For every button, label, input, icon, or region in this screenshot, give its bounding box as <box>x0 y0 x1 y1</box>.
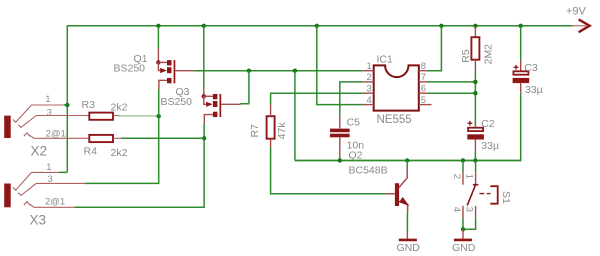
wire Q2 emitter to GND <box>406 213 408 231</box>
node dot S1 to GND <box>461 227 465 231</box>
wire IC pin6 to R5/C2 column <box>428 92 475 94</box>
capacitor C3 33u <box>513 60 543 96</box>
svg-text:33µ: 33µ <box>481 140 499 152</box>
wire rail to IC pin4 <box>317 26 363 105</box>
wire junction down to X3 pin3 <box>85 116 159 183</box>
wire R3 to junction <box>119 115 159 117</box>
wire Q1 gate to IC pin1 <box>194 70 363 72</box>
svg-text:R4: R4 <box>84 145 98 157</box>
IC1 pin 6 <box>419 92 428 94</box>
svg-text:GND: GND <box>452 242 476 254</box>
node dot rail-Q1 <box>156 24 160 28</box>
node dot gate net / C5-Q2 branch <box>293 69 297 73</box>
node dot Q3 drain / R4 <box>202 136 206 140</box>
+9V supply symbol <box>566 6 590 33</box>
svg-text:+9V: +9V <box>566 6 587 18</box>
svg-text:BC548B: BC548B <box>349 165 388 177</box>
ground GND under S1 <box>452 229 476 254</box>
svg-text:1: 1 <box>463 174 474 179</box>
svg-text:GND: GND <box>397 242 421 254</box>
node dot C2/S1 pin1 <box>473 158 477 162</box>
IC1 pin 3 <box>363 92 374 94</box>
svg-text:1: 1 <box>46 162 51 173</box>
svg-text:33µ: 33µ <box>525 84 543 96</box>
wire rail to IC pin8 <box>428 26 441 71</box>
wire C3 down to discharge net <box>295 93 521 161</box>
wire +9V rail and left drop <box>67 26 573 173</box>
capacitor C2 33u <box>467 118 499 152</box>
svg-text:8: 8 <box>421 61 426 72</box>
node dot C5 <box>338 158 342 162</box>
wire down to discharge net <box>294 71 296 161</box>
wire Q1 drain to junction <box>158 89 160 116</box>
svg-text:6: 6 <box>421 83 426 94</box>
svg-text:7: 7 <box>421 72 426 83</box>
svg-text:C3: C3 <box>524 62 538 74</box>
wire rail to Q1 source <box>157 26 159 49</box>
svg-text:C5: C5 <box>347 117 361 129</box>
svg-text:R3: R3 <box>82 99 96 111</box>
wire rail to Q3 source <box>203 26 205 89</box>
resistor R3 2k2 <box>82 99 128 120</box>
svg-text:2: 2 <box>451 174 462 179</box>
IC1 pin 1 <box>363 70 374 72</box>
svg-text:IC1: IC1 <box>377 54 394 66</box>
transistor Q1 BS250 <box>114 48 195 89</box>
node dot rail-C3 <box>519 24 523 28</box>
IC1 pin 7 <box>419 81 428 83</box>
wire IC pin7 to R5/C2 column <box>428 81 475 83</box>
node dot rail-pin4 <box>315 24 319 28</box>
svg-text:4: 4 <box>367 95 372 106</box>
switch S1 <box>451 161 512 230</box>
svg-text:4: 4 <box>451 207 462 212</box>
wire C2 down to discharge net <box>474 152 476 161</box>
wire IC pin3 to R7 <box>271 93 363 104</box>
wire rail to R5 <box>474 26 476 37</box>
IC1 NE555 body <box>363 54 432 126</box>
wire Q3 drain down to X3 pin 2@1 <box>75 124 204 208</box>
transistor Q3 BS250 <box>161 86 241 123</box>
svg-text:R5: R5 <box>460 49 472 63</box>
connector X2 jack <box>4 94 89 158</box>
node dot pin6 <box>473 91 477 95</box>
svg-text:1: 1 <box>45 94 50 105</box>
svg-text:2k2: 2k2 <box>111 147 128 159</box>
resistor R7 47k <box>249 104 288 147</box>
node dot gate net / Q3 gate <box>247 69 251 73</box>
svg-text:3: 3 <box>463 207 474 212</box>
wire X2 pin1 to left rail <box>64 104 68 106</box>
node dot Q2 collector <box>405 158 409 162</box>
svg-text:X2: X2 <box>31 143 48 158</box>
resistor R4 2k2 <box>84 135 128 159</box>
capacitor C5 10n <box>330 116 364 157</box>
ground GND under Q2 <box>397 231 421 254</box>
IC1 pin 5 <box>419 104 432 106</box>
svg-text:2M2: 2M2 <box>483 44 495 65</box>
IC1 pin 8 <box>419 70 428 72</box>
wire to Q3 gate <box>240 71 249 104</box>
svg-text:5: 5 <box>421 95 426 106</box>
svg-text:3: 3 <box>47 107 52 118</box>
node dot rail-pin8 <box>439 24 443 28</box>
wire R5 to C2 <box>474 71 476 126</box>
svg-text:R7: R7 <box>249 124 261 138</box>
svg-text:47k: 47k <box>276 122 288 140</box>
wire R7 down to Q2 base <box>271 147 386 194</box>
discharge net horizontal wire <box>295 160 521 162</box>
svg-text:NE555: NE555 <box>377 114 412 126</box>
svg-text:3: 3 <box>367 83 372 94</box>
wire rail to C3 <box>520 26 522 60</box>
svg-text:BS250: BS250 <box>114 63 146 75</box>
IC1 pin 2 <box>363 81 374 83</box>
transistor Q2 BC548B <box>349 150 410 213</box>
IC1 pin 4 <box>363 104 374 106</box>
wire IC pin2 down to C5 <box>340 82 363 116</box>
svg-text:2k2: 2k2 <box>111 101 128 113</box>
wire X3 pin1 up left rail (corner) <box>59 171 67 173</box>
connector X3 jack <box>4 162 85 228</box>
resistor R5 2M2 <box>460 37 494 70</box>
svg-text:1: 1 <box>367 61 372 72</box>
svg-text:BS250: BS250 <box>161 96 193 108</box>
node dot pin7 <box>473 80 477 84</box>
svg-text:3: 3 <box>48 174 53 185</box>
node dot R3/Q1 drain/X3 pin3 <box>157 114 161 118</box>
svg-text:2: 2 <box>367 72 372 83</box>
node dot S1 pin2 <box>461 158 465 162</box>
svg-text:S1: S1 <box>500 191 512 204</box>
wire C5 down to discharge net <box>339 156 341 160</box>
svg-text:X3: X3 <box>30 213 47 228</box>
svg-text:2@1: 2@1 <box>45 197 65 208</box>
svg-text:Q2: Q2 <box>349 150 363 162</box>
node dot X2 pin1 <box>65 103 69 107</box>
wire R4 to Q3 drain <box>121 137 204 139</box>
node dot rail-R5 <box>473 24 477 28</box>
node dot rail-Q3 <box>202 24 206 28</box>
svg-text:C2: C2 <box>481 118 495 130</box>
svg-text:2@1: 2@1 <box>46 128 66 139</box>
